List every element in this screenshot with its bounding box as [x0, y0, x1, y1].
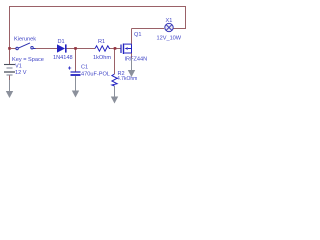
wire lamp right lead — [173, 28, 186, 30]
ground under C1 — [72, 76, 79, 98]
mosfet Q1 IRFZ44N — [121, 44, 132, 55]
ground under R2 — [111, 86, 118, 104]
svg-text:1kOhm: 1kOhm — [93, 55, 111, 61]
diode D1 1N4148 — [57, 44, 67, 52]
wire lamp left lead to drain corner — [132, 28, 165, 30]
wire node to C1 — [75, 49, 77, 72]
resistor R2 4.7kOhm — [112, 74, 117, 86]
wire diode to R1 — [67, 48, 96, 50]
resistor R1 1kOhm — [95, 46, 110, 51]
junction switch/battery node — [8, 47, 11, 50]
lamp X1 12V_10W — [165, 23, 173, 31]
svg-text:X1: X1 — [166, 18, 173, 24]
wire battery bottom stub — [9, 75, 11, 80]
capacitor C1 470uF-POL — [68, 66, 81, 75]
wire left rail down to switch junction — [9, 6, 11, 49]
wire right side down — [185, 6, 187, 29]
svg-text:C1: C1 — [81, 65, 88, 71]
svg-text:1N4148: 1N4148 — [53, 55, 73, 61]
svg-text:IRFZ44N: IRFZ44N — [125, 57, 148, 63]
svg-text:Key = Space: Key = Space — [12, 57, 44, 63]
switch S1 Kierunek — [11, 43, 36, 50]
ground under V1 — [6, 80, 13, 98]
wire R1 to gate — [110, 48, 121, 50]
svg-text:12V_10W: 12V_10W — [157, 36, 182, 42]
wire switch to diode — [36, 48, 58, 50]
svg-text:R1: R1 — [98, 39, 105, 45]
junction R1/R2/gate node — [114, 47, 117, 50]
ground under Q1 source — [128, 58, 135, 77]
junction diode/C1 node — [74, 47, 77, 50]
wire drain vertical — [131, 29, 133, 45]
svg-text:Q1: Q1 — [134, 32, 141, 38]
svg-text:4.7kOhm: 4.7kOhm — [117, 76, 137, 82]
svg-text:12 V: 12 V — [15, 70, 27, 76]
mosfet body arrow — [125, 47, 128, 50]
svg-text:V1: V1 — [15, 64, 22, 70]
battery V1 — [4, 65, 15, 76]
svg-text:D1: D1 — [58, 39, 65, 45]
wire top rail — [9, 6, 186, 8]
wire node to R2 — [114, 49, 116, 75]
svg-text:Kierunek: Kierunek — [14, 37, 36, 43]
svg-text:470uF-POL: 470uF-POL — [81, 72, 110, 78]
wire battery top — [9, 49, 11, 65]
wire source vertical — [131, 53, 133, 58]
